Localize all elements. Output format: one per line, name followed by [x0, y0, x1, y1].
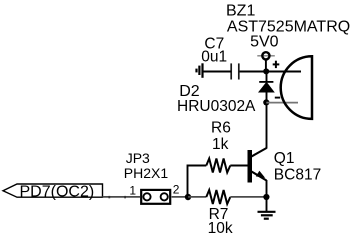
transistor Q1 [248, 148, 267, 183]
wire node D to buzzer + pin [266, 71, 301, 73]
svg-text:Q1: Q1 [274, 150, 295, 167]
pin end tick (JP3 pin 1) [124, 196, 126, 198]
svg-text:10k: 10k [208, 220, 233, 237]
buzzer BZ1 [281, 56, 312, 119]
junction node C (anode / buzzer -) [263, 99, 269, 105]
wire Q1 emitter to node B [266, 180, 268, 197]
wire node C to buzzer - pin [266, 102, 298, 104]
buzzer - polarity mark [275, 97, 280, 99]
svg-text:0u1: 0u1 [201, 49, 227, 66]
buzzer + polarity mark [273, 61, 280, 68]
svg-text:R6: R6 [211, 120, 231, 137]
wire Q1 collector to diode anode node [266, 102, 268, 148]
resistor R7 [206, 190, 230, 204]
svg-text:JP3: JP3 [126, 150, 150, 166]
junction node A [185, 194, 191, 200]
svg-text:PD7(OC2): PD7(OC2) [20, 184, 95, 201]
junction node B (emitter / R7 / GND) [263, 194, 269, 200]
svg-text:AST7525MATRQ: AST7525MATRQ [227, 19, 350, 36]
svg-text:PH2X1: PH2X1 [124, 165, 169, 181]
connector JP3 [141, 190, 170, 204]
wire GND2 to C7 [203, 71, 231, 73]
svg-text:1: 1 [129, 184, 136, 198]
wire C7 to node D [239, 71, 267, 73]
pin end tick (flag wire) [108, 196, 110, 198]
supply 5V0 [257, 52, 275, 71]
svg-text:5V0: 5V0 [250, 34, 279, 51]
node PD7(OC2) net flag [3, 184, 103, 197]
wire JP3 pin 2 to node A [172, 196, 188, 198]
wire flag to JP3 pin 1 [103, 196, 141, 198]
svg-text:BZ1: BZ1 [226, 3, 255, 20]
svg-text:HRU0302A: HRU0302A [177, 98, 256, 115]
svg-text:1k: 1k [212, 136, 229, 153]
svg-text:2: 2 [173, 183, 180, 197]
wire node A up to R6 [188, 166, 207, 198]
capacitor C7 [231, 63, 239, 79]
wire R6 to Q1 base [230, 165, 247, 167]
svg-text:BC817: BC817 [274, 166, 321, 183]
ground GND2 left of C7 [197, 63, 203, 78]
junction node D (cathode / 5V0 / buzzer + / C7) [263, 68, 269, 74]
wire R7 to node B [230, 196, 266, 198]
ground GND1 below Q1 [258, 197, 276, 219]
diode D2 [258, 72, 275, 103]
wire node A to R7 [188, 196, 206, 198]
resistor R6 [206, 159, 230, 173]
